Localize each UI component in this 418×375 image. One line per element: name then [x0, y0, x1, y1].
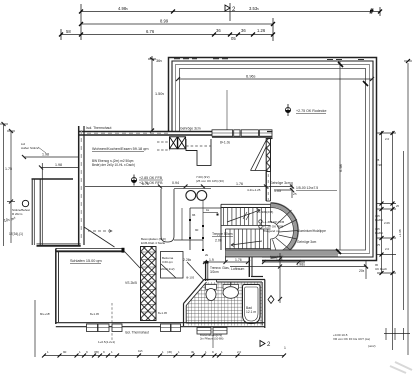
svg-text:2.98: 2.98 [376, 163, 382, 167]
svg-text:8.99: 8.99 [160, 19, 169, 24]
svg-text:90: 90 [63, 350, 67, 354]
svg-text:2k: 2k [205, 253, 209, 257]
svg-text:ECB-Dlab 4 Stelle: ECB-Dlab 4 Stelle [141, 241, 166, 245]
outer wall rect [169, 58, 377, 261]
svg-text:+1.385 OK FFB: +1.385 OK FFB [263, 220, 284, 224]
dashed lintel left of column [157, 142, 170, 150]
inner vertical roof line [339, 61, 341, 250]
right wall [264, 280, 266, 329]
svg-text:2.0: 2.0 [385, 137, 390, 141]
bath door swing [187, 262, 204, 281]
svg-text:6.76: 6.76 [142, 182, 149, 186]
stair labels [259, 210, 284, 233]
svg-text:2.265: 2.265 [183, 258, 192, 262]
svg-text:1.75: 1.75 [5, 167, 12, 171]
svg-text:Luftraum: Luftraum [231, 267, 245, 271]
svg-text:4.985: 4.985 [118, 6, 128, 11]
svg-text:Treppe 50cm: Treppe 50cm [212, 232, 233, 236]
svg-text:8ru+18': 8ru+18' [40, 312, 50, 316]
svg-text:25: 25 [293, 192, 297, 196]
svg-text:58: 58 [66, 29, 71, 34]
P2 marker bottom [260, 341, 271, 349]
svg-text:(25 von OK 105) (30): (25 von OK 105) (30) [196, 179, 224, 183]
svg-text:Außer Stütze: Außer Stütze [21, 146, 39, 150]
bottom windows [87, 324, 228, 334]
svg-text:1k: 1k [206, 208, 210, 212]
FFB level mark [131, 175, 163, 186]
svg-text:36: 36 [241, 28, 246, 33]
svg-text:+2.75 OK Rodecke: +2.75 OK Rodecke [296, 109, 326, 113]
svg-text:VS 2k/5: VS 2k/5 [125, 281, 137, 285]
inner face rect [180, 69, 366, 251]
diamond symbol right of bath [268, 296, 274, 304]
interior dim line [85, 182, 294, 198]
svg-text:4.41+1.25: 4.41+1.25 [247, 188, 261, 192]
svg-text:1.933(235): 1.933(235) [259, 210, 273, 214]
svg-text:1.505: 1.505 [155, 92, 164, 96]
svg-text:2.08: 2.08 [215, 239, 222, 243]
svg-text:0.94: 0.94 [172, 181, 179, 185]
betonplatten label [141, 237, 166, 245]
steel column block with X [170, 137, 186, 149]
svg-text:365: 365 [156, 59, 162, 63]
dashed arrow [88, 230, 112, 232]
svg-text:Raffst: Raffst [375, 231, 383, 235]
inner circle + radial treads [271, 204, 299, 258]
svg-text:1k5: 1k5 [138, 349, 143, 353]
svg-text:1+0.5(1.2+1): 1+0.5(1.2+1) [98, 340, 115, 344]
far left vertical dims [0, 122, 15, 246]
svg-text:2.06: 2.06 [384, 221, 390, 225]
door swing to diele [125, 252, 141, 269]
dim to 1/5-00 [274, 188, 294, 192]
dim line row3 [61, 34, 273, 36]
sink [223, 282, 239, 299]
svg-text:2.0: 2.0 [385, 247, 390, 251]
svg-text:2m Pflaum (10-B6): 2m Pflaum (10-B6) [200, 337, 224, 341]
corner piece [267, 131, 273, 133]
corner junction marks [338, 62, 343, 67]
svg-text:1.76: 1.76 [235, 258, 242, 262]
svg-text:6.98: 6.98 [338, 163, 343, 172]
partition texts [210, 266, 230, 274]
svg-text:1.26: 1.26 [257, 28, 266, 33]
windows row [212, 130, 272, 136]
svg-text:3.535: 3.535 [249, 6, 259, 11]
svg-text:2.0: 2.0 [237, 350, 242, 354]
terrace door swing [251, 141, 267, 171]
svg-text:36: 36 [216, 28, 221, 33]
vertical dim right of bath [278, 253, 282, 303]
wall continuation below [265, 172, 267, 202]
curved end: outer gray band [271, 203, 299, 258]
flight divider [221, 225, 271, 227]
top wall thick [37, 244, 266, 327]
svg-text:95: 95 [376, 158, 380, 162]
svg-text:(45): (45) [167, 350, 172, 354]
svg-text:Aluminium/Holzlippe: Aluminium/Holzlippe [297, 229, 326, 233]
cut slashes [243, 212, 250, 220]
left vertical [183, 304, 185, 327]
svg-text:Bede) der 2x0y 10-HL x Dach): Bede) der 2x0y 10-HL x Dach) [92, 163, 135, 167]
svg-text:Gehröge 3cm: Gehröge 3cm [180, 127, 201, 131]
svg-text:6.76: 6.76 [146, 29, 155, 34]
tick slashes on dims [59, 10, 382, 37]
bathtub [243, 285, 261, 324]
svg-text:90: 90 [195, 228, 199, 232]
door swing schlafen [84, 227, 115, 247]
living room labels [92, 147, 149, 151]
svg-text:(95): (95) [94, 350, 99, 354]
svg-text:(um2): (um2) [368, 344, 376, 348]
svg-text:UK Dach: UK Dach [375, 267, 387, 271]
stairwell outline [221, 203, 271, 205]
svg-text:Isol. Thermohaut: Isol. Thermohaut [125, 331, 149, 335]
svg-text:8+1.05: 8+1.05 [158, 311, 168, 315]
dark end mark top right [370, 9, 374, 14]
svg-text:6.965: 6.965 [246, 74, 256, 79]
svg-text:Gehröge 3cm: Gehröge 3cm [297, 240, 317, 244]
dim extension below bath [212, 331, 214, 348]
svg-text:3.60 qm: 3.60 qm [162, 260, 173, 264]
cavity dashes top wall [87, 132, 168, 134]
stütze circle [7, 200, 29, 207]
left diagonal [184, 280, 205, 304]
dim labels top [66, 6, 266, 41]
svg-text:⊕ 105: ⊕ 105 [186, 276, 195, 280]
glass partition left of bath door [205, 261, 209, 281]
svg-text:Wiegand m: Wiegand m [263, 229, 279, 233]
left wall [55, 248, 57, 324]
svg-text:05: 05 [231, 36, 236, 41]
left dims [22, 155, 78, 170]
bottom right notes [333, 333, 376, 348]
extension ticks [80, 4, 82, 40]
svg-text:96: 96 [192, 213, 196, 217]
dashed vertical + label [111, 303, 113, 342]
svg-text:1.9: 1.9 [209, 258, 214, 262]
svg-text:1: 1 [284, 346, 286, 350]
svg-text:3k: 3k [191, 350, 195, 354]
svg-text:3/2cm: 3/2cm [210, 270, 219, 274]
window dim extension into terrace [226, 90, 228, 131]
svg-text:1.98: 1.98 [55, 163, 62, 167]
toilet [206, 285, 217, 301]
upper treads [224, 208, 268, 249]
dashes above top wall [174, 58, 364, 61]
svg-text:1.98: 1.98 [42, 153, 49, 157]
svg-text:4.985: 4.985 [296, 263, 305, 267]
svg-text:Wohnen/Kochen/Essen 59.18 qm: Wohnen/Kochen/Essen 59.18 qm [92, 147, 149, 151]
svg-text:1/5-00 125x7.5: 1/5-00 125x7.5 [296, 186, 318, 190]
svg-text:1.05: 1.05 [274, 189, 281, 193]
walk line with arrow [227, 209, 262, 247]
marker P2 top [225, 5, 236, 13]
chimney/step block under wall [186, 139, 211, 165]
svg-text:Schlafen 15.00 qm: Schlafen 15.00 qm [70, 259, 102, 263]
svg-text:+1.28 OK RFB: +1.28 OK RFB [263, 225, 283, 229]
dim line row2 [81, 23, 273, 25]
left terrace vertical dim [148, 56, 156, 133]
bottom wall [56, 322, 265, 324]
svg-text:12.1 m: 12.1 m [246, 310, 256, 314]
svg-text:8+1.05: 8+1.05 [220, 141, 231, 145]
dims above bath [203, 260, 305, 264]
svg-text:8+1.05: 8+1.05 [90, 312, 100, 316]
svg-text:+2.85 OK FFB: +2.85 OK FFB [139, 176, 163, 180]
svg-text:+1.98: +1.98 [398, 229, 402, 237]
tiled floor [186, 282, 262, 326]
top wall [204, 279, 265, 281]
rodecke level mark [285, 104, 326, 116]
svg-text:Raffst: Raffst [375, 218, 383, 222]
svg-text:Gehröge 3cm: Gehröge 3cm [270, 181, 291, 185]
4.98 dim line [230, 261, 368, 279]
faint corner smudge bottom right [390, 362, 412, 373]
svg-text:Isol. Thermohaut: Isol. Thermohaut [86, 126, 111, 130]
dim line row1 [81, 11, 380, 13]
svg-text:VR von OK FF bis UKT (ca): VR von OK FF bis UKT (ca) [333, 337, 370, 341]
svg-text:205: 205 [359, 269, 365, 273]
svg-text:(20/2) 2x2): (20/2) 2x2) [160, 267, 175, 271]
svg-text:1.76: 1.76 [236, 182, 243, 186]
